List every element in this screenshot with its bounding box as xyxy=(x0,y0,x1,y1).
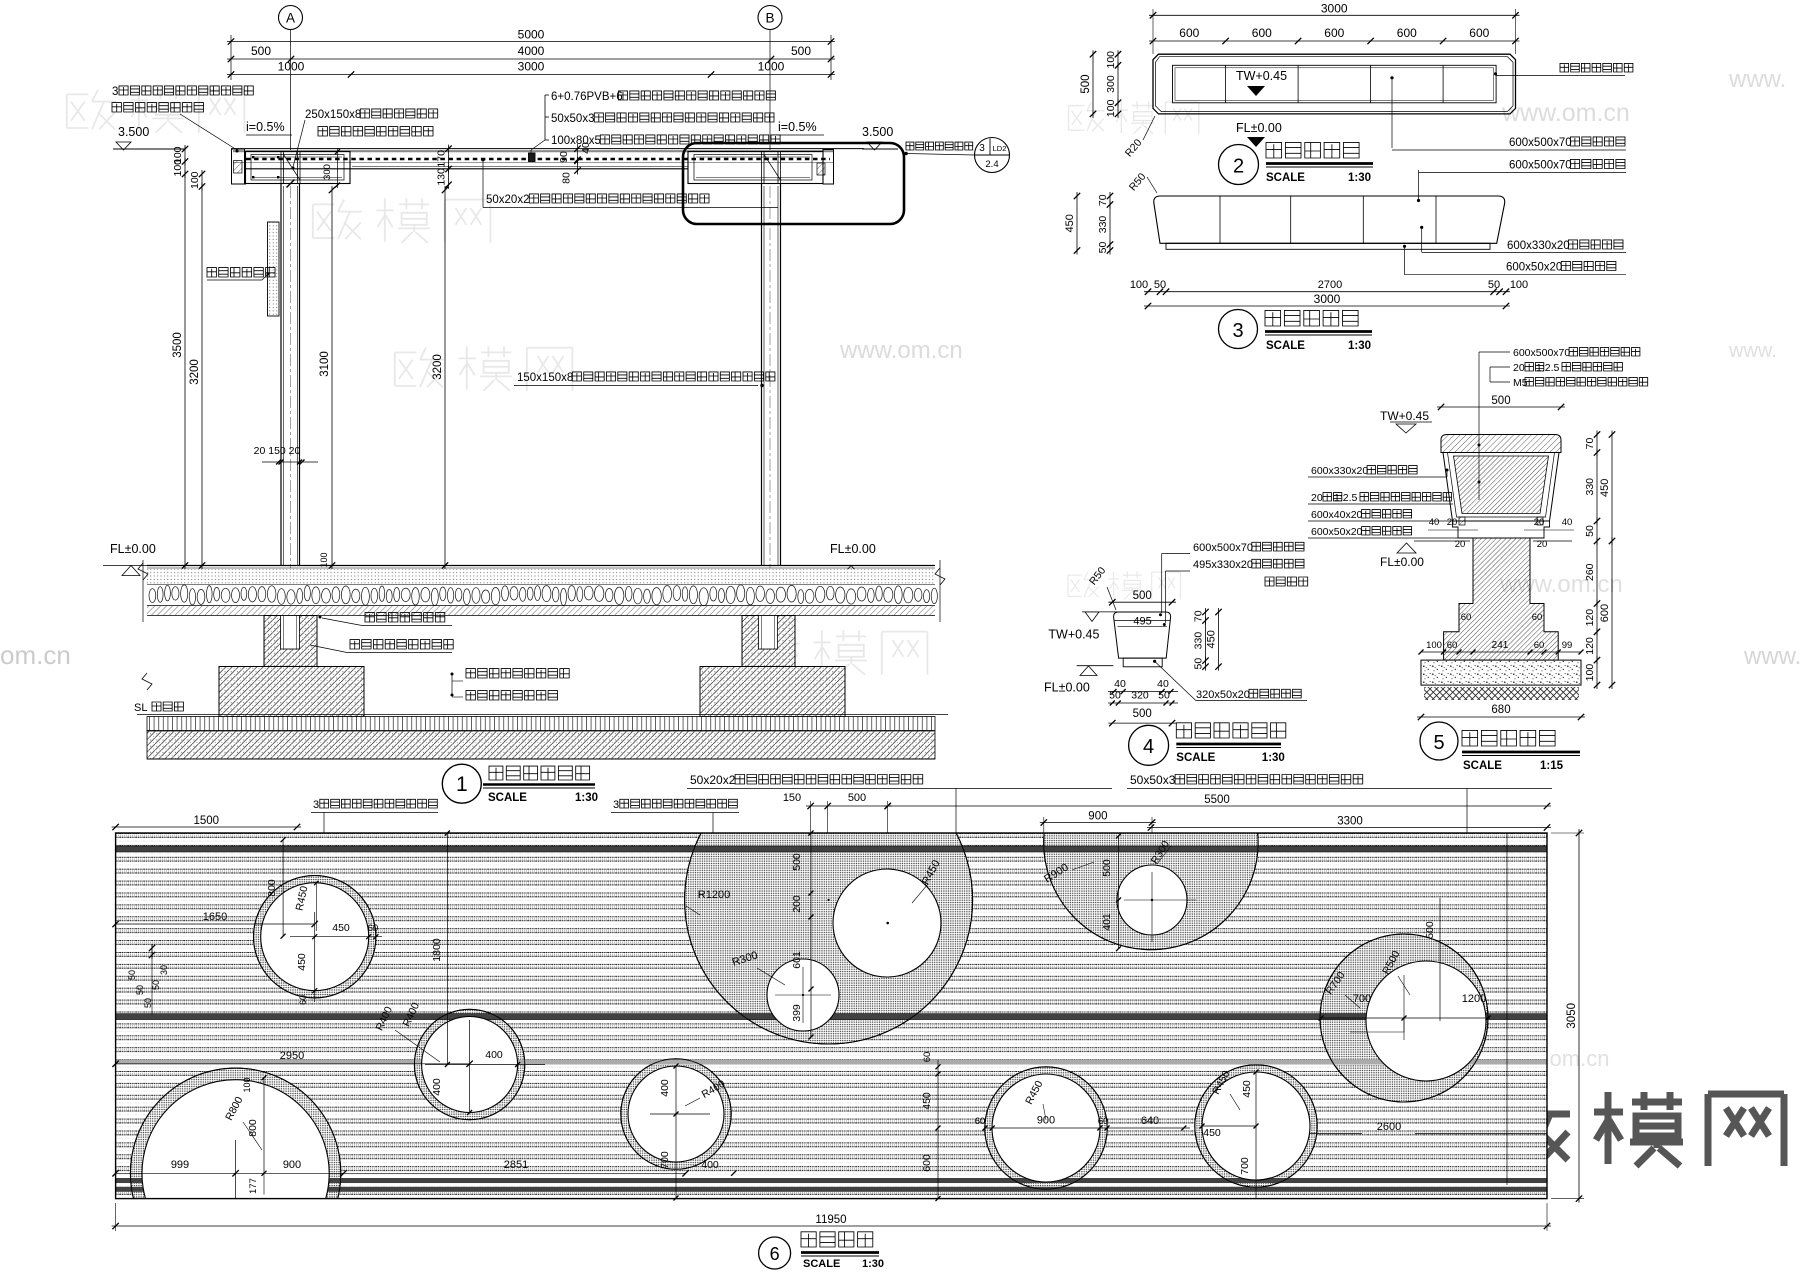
svg-text:20: 20 xyxy=(1447,517,1458,528)
svg-text:3000: 3000 xyxy=(1321,1,1348,15)
label R20 xyxy=(1123,116,1155,159)
dimension 1000-3000-1000 xyxy=(227,60,835,78)
dim 3100 xyxy=(319,186,335,570)
svg-text:50: 50 xyxy=(1488,279,1500,291)
svg-text:1:15: 1:15 xyxy=(1540,760,1564,772)
panel label 50x50x3 xyxy=(1127,773,1552,1020)
circle1 R450 xyxy=(294,881,319,931)
svg-text:11950: 11950 xyxy=(815,1214,846,1226)
svg-text:450: 450 xyxy=(1203,1127,1221,1139)
svg-text:2851: 2851 xyxy=(504,1159,528,1171)
title 4 xyxy=(1129,723,1286,766)
svg-text:2600: 2600 xyxy=(1377,1121,1401,1133)
svg-text:320x50x20: 320x50x20 xyxy=(1196,689,1250,701)
svg-text:700: 700 xyxy=(1239,1157,1251,1175)
dim 1800 xyxy=(431,831,450,1068)
svg-text:M5: M5 xyxy=(1513,377,1528,389)
circle3 center lines xyxy=(112,1140,688,1198)
dim 90-40 xyxy=(558,142,592,164)
detail bubble leader xyxy=(904,152,974,156)
svg-text:www.om.cn: www.om.cn xyxy=(1501,99,1630,127)
svg-text:3: 3 xyxy=(112,86,118,98)
beam 100x80x5 purlin band xyxy=(231,149,864,169)
v4 right dim 450 xyxy=(1206,608,1222,671)
slope label left xyxy=(246,120,292,135)
svg-text:50: 50 xyxy=(1109,690,1121,702)
level 3.500 left xyxy=(113,125,185,150)
circle7 vertical dims xyxy=(921,1052,941,1201)
svg-text:70: 70 xyxy=(1584,438,1596,450)
svg-text:SCALE: SCALE xyxy=(488,792,527,804)
r900 R900 label xyxy=(1042,861,1094,885)
circle6 R500 xyxy=(1380,949,1410,995)
svg-text:i=0.5%: i=0.5% xyxy=(778,120,817,134)
svg-text:20: 20 xyxy=(1537,539,1548,550)
svg-text:495x330x20: 495x330x20 xyxy=(1193,559,1253,571)
svg-text:1800: 1800 xyxy=(431,938,443,962)
svg-text:150: 150 xyxy=(783,792,801,804)
left small dims xyxy=(127,944,169,1015)
svg-text:260: 260 xyxy=(1584,563,1596,581)
plan TW+0.45 xyxy=(1236,69,1287,96)
svg-text:SCALE: SCALE xyxy=(1266,172,1305,184)
svg-text:4000: 4000 xyxy=(518,44,545,58)
v5 soil hatch xyxy=(1424,687,1579,700)
v5 right chain1 xyxy=(1584,431,1600,690)
title 6 xyxy=(759,1232,884,1270)
svg-text:20: 20 xyxy=(1311,492,1323,504)
dim 500 top v4 xyxy=(1108,590,1176,605)
svg-text:300: 300 xyxy=(1105,75,1117,93)
svg-text:600x50x20: 600x50x20 xyxy=(1311,526,1363,538)
svg-text:SCALE: SCALE xyxy=(1463,760,1502,772)
leader 600x500x70 no2 xyxy=(1417,159,1626,202)
watermark urls xyxy=(0,66,1800,1071)
svg-text:70: 70 xyxy=(1097,194,1109,206)
panel dim 11950 xyxy=(112,1203,1551,1231)
svg-text:FL±0.00: FL±0.00 xyxy=(1380,555,1424,569)
label concrete xyxy=(310,640,453,653)
label column 150x150x8 xyxy=(514,372,775,387)
svg-text:50: 50 xyxy=(143,998,153,1008)
svg-text:FL±0.00: FL±0.00 xyxy=(1236,121,1282,135)
svg-text:FL±0.00: FL±0.00 xyxy=(830,542,876,556)
dim elev left 70-330-50 xyxy=(1097,192,1113,255)
column A 150x150x8 xyxy=(281,184,300,566)
svg-text:20: 20 xyxy=(1513,362,1525,374)
v5 side blocks xyxy=(1453,517,1550,538)
beam right cap xyxy=(823,150,834,185)
dim 170 xyxy=(436,145,452,173)
svg-text:3: 3 xyxy=(313,799,319,811)
dim 3000 plan xyxy=(1149,1,1520,54)
svg-text:1: 1 xyxy=(456,773,468,796)
svg-text:500: 500 xyxy=(1491,395,1510,407)
svg-text:SCALE: SCALE xyxy=(1266,340,1305,352)
pier A xyxy=(264,616,317,667)
panel leader vertical extra xyxy=(1506,833,1508,1185)
slope label right xyxy=(778,120,824,135)
svg-text:680: 680 xyxy=(1491,704,1510,716)
svg-text:241: 241 xyxy=(1492,640,1509,651)
title 2 bench plan xyxy=(1219,142,1374,184)
svg-text:100: 100 xyxy=(1105,51,1117,69)
dimension 5000 xyxy=(227,28,835,81)
svg-text:3.500: 3.500 xyxy=(118,125,149,139)
circle8 dims xyxy=(650,1064,736,1201)
svg-text:400: 400 xyxy=(431,1078,443,1096)
svg-text:2: 2 xyxy=(1233,156,1244,178)
dim elev 100-50-2700-50-100 xyxy=(1130,279,1528,295)
dim 20-150-20 column xyxy=(254,445,318,465)
blob R450 label xyxy=(912,858,943,903)
svg-text:399: 399 xyxy=(791,1004,803,1022)
svg-text:600: 600 xyxy=(1324,26,1344,40)
svg-text:1500: 1500 xyxy=(194,815,220,827)
svg-text:400: 400 xyxy=(485,1049,503,1061)
svg-text:70: 70 xyxy=(1192,610,1204,622)
dim elev 3000 xyxy=(1144,292,1510,309)
title 1 corridor section xyxy=(442,764,598,804)
leader 600x50x20 elev xyxy=(1403,245,1626,275)
svg-text:130: 130 xyxy=(436,168,448,186)
svg-text:50: 50 xyxy=(135,985,145,995)
v4 dims 50-320-50 xyxy=(1108,690,1178,706)
panel label steel plate left xyxy=(311,799,438,881)
beam joint at A xyxy=(246,148,351,188)
label R50 elev xyxy=(1127,171,1157,194)
svg-text:SCALE: SCALE xyxy=(1176,752,1215,764)
svg-text:1:30: 1:30 xyxy=(1262,752,1285,764)
panel dim 3050 xyxy=(1551,829,1584,1203)
svg-text:330: 330 xyxy=(1192,632,1204,650)
svg-text:500: 500 xyxy=(1424,921,1436,939)
label bracket xyxy=(529,95,550,162)
dim 1650 xyxy=(112,911,318,927)
svg-text:1000: 1000 xyxy=(278,60,305,74)
svg-text:50x50x3: 50x50x3 xyxy=(551,113,594,125)
v4 dim 500 bottom xyxy=(1108,708,1176,726)
svg-text:250x150x8: 250x150x8 xyxy=(305,109,361,121)
svg-text:600: 600 xyxy=(1469,26,1489,40)
svg-text:401: 401 xyxy=(1101,913,1113,931)
label garage slab xyxy=(451,691,558,700)
v4 FL marker xyxy=(1044,666,1113,695)
svg-text:3: 3 xyxy=(979,143,985,154)
v5 label mortar xyxy=(1308,492,1453,504)
blob center marks xyxy=(775,899,889,1023)
circle6 dims xyxy=(1319,898,1491,1040)
svg-text:500: 500 xyxy=(1133,708,1152,720)
svg-text:600x330x20: 600x330x20 xyxy=(1507,240,1570,252)
v4 label 320x50x20 xyxy=(1153,660,1307,701)
svg-text:600: 600 xyxy=(921,1154,933,1172)
svg-text:90: 90 xyxy=(558,151,570,163)
svg-text:50: 50 xyxy=(127,970,137,980)
svg-text:100: 100 xyxy=(242,1077,252,1092)
circle7 dims xyxy=(975,1115,1190,1131)
circle7 R450 xyxy=(1023,1079,1046,1120)
v5 concrete pad xyxy=(1421,660,1581,685)
panel board stripes xyxy=(116,833,1547,1199)
svg-text:600x330x20: 600x330x20 xyxy=(1311,465,1368,477)
v5 stem xyxy=(1444,538,1559,660)
svg-text:600x500x70: 600x500x70 xyxy=(1509,137,1572,149)
level FL left xyxy=(103,542,159,576)
svg-text:450: 450 xyxy=(1599,479,1611,497)
grid bubble A xyxy=(279,6,303,30)
svg-text:60: 60 xyxy=(1532,612,1543,623)
circle2 crosshair xyxy=(425,1020,545,1115)
dim 80 xyxy=(561,157,581,184)
blob R300 xyxy=(731,949,785,985)
svg-text:600x40x20: 600x40x20 xyxy=(1311,509,1363,521)
svg-text:600x500x70: 600x500x70 xyxy=(1193,542,1253,554)
grid bubble B xyxy=(758,6,782,30)
bench v4 body xyxy=(1114,612,1171,667)
svg-text:800: 800 xyxy=(266,879,278,897)
dim 2950 xyxy=(112,1050,472,1067)
label main beam 250x150x8 xyxy=(292,109,438,170)
svg-text:www.: www. xyxy=(1728,66,1786,93)
v5 top leader xyxy=(1478,352,1511,500)
dim 600x5 plan xyxy=(1149,26,1520,44)
label 50x50x3 xyxy=(551,113,774,125)
svg-text:177: 177 xyxy=(248,1178,259,1194)
svg-text:500: 500 xyxy=(848,792,866,804)
svg-text:40: 40 xyxy=(1114,678,1126,690)
svg-text:500: 500 xyxy=(251,44,271,58)
title 5 xyxy=(1420,722,1580,772)
svg-text:700: 700 xyxy=(659,1151,671,1169)
v4 label 600x500x70 xyxy=(1159,542,1310,616)
svg-text:LD2: LD2 xyxy=(993,144,1007,153)
label embed xyxy=(319,613,453,626)
svg-text:100: 100 xyxy=(1584,664,1596,682)
svg-text:80: 80 xyxy=(561,172,573,184)
circle6 R700 xyxy=(1323,969,1360,1008)
svg-text:20: 20 xyxy=(1534,517,1545,528)
label 100x80x5 xyxy=(551,135,780,147)
svg-text:3: 3 xyxy=(613,799,619,811)
svg-text:2950: 2950 xyxy=(280,1050,304,1062)
svg-text:330: 330 xyxy=(1097,216,1109,234)
svg-text:40: 40 xyxy=(1157,678,1169,690)
v5 cap 600x500x70 xyxy=(1441,435,1561,453)
detail callout box xyxy=(683,143,904,224)
svg-text:1:30: 1:30 xyxy=(1348,172,1371,184)
svg-text:320: 320 xyxy=(1131,690,1149,702)
svg-text:3.500: 3.500 xyxy=(862,125,893,139)
svg-text:1:2.5: 1:2.5 xyxy=(1334,492,1358,504)
circle1 dim 800 xyxy=(266,837,286,939)
svg-text:900: 900 xyxy=(283,1159,301,1171)
svg-text:30: 30 xyxy=(159,965,169,975)
svg-text:3200: 3200 xyxy=(189,359,201,385)
svg-text:600: 600 xyxy=(1179,26,1199,40)
dim plan left 500 xyxy=(1080,50,1096,118)
svg-text:40: 40 xyxy=(580,142,592,154)
SL line xyxy=(134,702,948,715)
svg-text:150x150x8: 150x150x8 xyxy=(517,372,573,384)
svg-text:5000: 5000 xyxy=(518,28,545,42)
column B 150x150x8 xyxy=(762,184,781,566)
svg-text:100: 100 xyxy=(172,159,184,177)
panel dark band 1 xyxy=(116,846,1547,852)
svg-text:601: 601 xyxy=(791,951,803,969)
svg-text:60: 60 xyxy=(1098,1116,1109,1127)
v4 TW marker xyxy=(1048,612,1138,642)
panel stippled rings xyxy=(130,735,1488,1273)
v5 label 600x50x20 xyxy=(1308,526,1465,538)
leader bench bottom outline xyxy=(1494,63,1633,75)
svg-text:60: 60 xyxy=(1461,612,1472,623)
svg-text:TW+0.45: TW+0.45 xyxy=(1380,409,1429,423)
svg-text:3300: 3300 xyxy=(1337,816,1363,828)
svg-text:450: 450 xyxy=(296,953,308,971)
svg-text:40: 40 xyxy=(1429,517,1440,528)
svg-text:1:2.5: 1:2.5 xyxy=(1536,362,1560,374)
svg-text:1:30: 1:30 xyxy=(1348,340,1371,352)
dim 100 top pair xyxy=(172,145,188,178)
svg-text:6+0.76PVB+6: 6+0.76PVB+6 xyxy=(551,91,623,103)
svg-text:3000: 3000 xyxy=(518,60,545,74)
svg-text:om.cn: om.cn xyxy=(0,640,71,670)
svg-text:330: 330 xyxy=(1584,478,1596,496)
dim 3200 left xyxy=(189,183,205,570)
svg-text:100: 100 xyxy=(1105,99,1117,117)
svg-text:120: 120 xyxy=(1584,609,1596,627)
bench plan seat rect xyxy=(1173,65,1497,103)
circle8 R400 xyxy=(685,1078,728,1106)
wall lamp xyxy=(268,222,280,316)
svg-text:600: 600 xyxy=(1252,26,1272,40)
bench elevation body xyxy=(1154,196,1505,249)
svg-text:500: 500 xyxy=(1080,74,1092,93)
svg-text:999: 999 xyxy=(171,1159,189,1171)
v5 FL marker xyxy=(1380,541,1572,569)
svg-text:3100: 3100 xyxy=(319,351,331,377)
label waterproof xyxy=(451,669,570,695)
v5 seat walls xyxy=(1443,453,1559,522)
svg-text:600x50x20: 600x50x20 xyxy=(1506,262,1562,274)
blob vertical dims xyxy=(791,831,814,1040)
svg-text:400: 400 xyxy=(701,1159,719,1171)
panel dim 3300 xyxy=(1147,816,1551,831)
circle2 R400 labels xyxy=(374,1001,440,1062)
slab xyxy=(147,717,935,760)
v5 label 600x40x20 xyxy=(1308,509,1459,521)
svg-text:600: 600 xyxy=(1599,604,1611,622)
svg-text:450: 450 xyxy=(1241,1080,1253,1098)
v4 dims 40-40 xyxy=(1108,678,1178,694)
bench plan dividers xyxy=(1226,65,1444,103)
svg-text:500: 500 xyxy=(791,44,811,58)
blob R1200 xyxy=(686,889,740,915)
dimension 500-4000-500 xyxy=(227,44,835,62)
break marks xyxy=(138,560,945,690)
v5 dim 680 xyxy=(1417,704,1585,720)
svg-text:60: 60 xyxy=(975,1116,986,1127)
svg-text:120: 120 xyxy=(1584,637,1596,655)
svg-text:3050: 3050 xyxy=(1566,1003,1578,1029)
svg-text:450: 450 xyxy=(921,1092,933,1110)
svg-text:i=0.5%: i=0.5% xyxy=(246,120,285,134)
svg-text:60: 60 xyxy=(298,995,308,1005)
v5 dims 100-60-241 xyxy=(1419,612,1584,655)
panel circle holes xyxy=(130,735,1488,1273)
level 3.500 right xyxy=(862,125,898,150)
svg-text:www.om.cn: www.om.cn xyxy=(839,337,963,364)
dim 100 third xyxy=(189,170,205,191)
svg-text:100: 100 xyxy=(1426,640,1442,651)
bench elevation dividers xyxy=(1220,196,1436,243)
svg-text:900: 900 xyxy=(1037,1115,1055,1127)
svg-text:450: 450 xyxy=(1064,214,1076,232)
svg-text:TW+0.45: TW+0.45 xyxy=(1236,69,1287,83)
beam left cap xyxy=(232,149,247,184)
svg-text:A: A xyxy=(286,11,295,26)
svg-text:100: 100 xyxy=(1130,279,1148,291)
svg-text:500: 500 xyxy=(1101,859,1113,877)
svg-text:50x20x2: 50x20x2 xyxy=(486,194,529,206)
circle1 crosshair xyxy=(290,912,382,1005)
svg-text:www.: www. xyxy=(1743,643,1800,670)
panel dark band 3 xyxy=(116,1178,1547,1183)
svg-text:900: 900 xyxy=(1088,811,1107,823)
svg-text:600x500x70: 600x500x70 xyxy=(1509,160,1572,172)
svg-text:1000: 1000 xyxy=(758,60,785,74)
svg-text:50: 50 xyxy=(1193,658,1205,670)
panel dim 5500 xyxy=(884,794,1551,809)
detail bubble 3/LD2 xyxy=(975,138,1010,173)
svg-text:1200: 1200 xyxy=(1462,993,1486,1005)
watermark ghosts xyxy=(67,88,1199,1070)
bench plan outline xyxy=(1153,54,1516,114)
panel gray band xyxy=(116,1060,1547,1065)
grid line A xyxy=(290,30,292,569)
v4 label 495x330x20 xyxy=(1163,559,1304,626)
circle3 dims xyxy=(242,1075,267,1194)
pavement layers xyxy=(147,566,937,616)
label glass xyxy=(551,91,775,103)
wall lamp label xyxy=(207,268,275,280)
svg-text:SCALE: SCALE xyxy=(803,1258,840,1270)
svg-text:2.4: 2.4 xyxy=(985,159,998,170)
svg-text:5: 5 xyxy=(1433,732,1444,754)
svg-text:99: 99 xyxy=(1562,640,1573,651)
svg-text:450: 450 xyxy=(1206,630,1218,648)
svg-text:450: 450 xyxy=(332,922,350,934)
footing B xyxy=(700,667,845,717)
svg-text:700: 700 xyxy=(1353,993,1371,1005)
dim 3200 mid xyxy=(432,186,448,570)
beam joint at B xyxy=(688,152,825,184)
circle3 R800 xyxy=(223,1095,262,1150)
svg-text:800: 800 xyxy=(247,1119,259,1137)
level FL right xyxy=(823,542,879,576)
svg-text:50: 50 xyxy=(1584,525,1596,537)
svg-text:60: 60 xyxy=(368,923,379,934)
svg-text:1:30: 1:30 xyxy=(862,1258,884,1270)
svg-text:100x80x5: 100x80x5 xyxy=(551,135,601,147)
svg-text:3200: 3200 xyxy=(432,354,444,380)
dim 100 pier xyxy=(319,552,329,567)
label R50 v4 xyxy=(1087,565,1116,610)
svg-text:www.: www. xyxy=(1728,340,1777,362)
svg-text:100: 100 xyxy=(1510,279,1528,291)
svg-text:50: 50 xyxy=(1154,279,1166,291)
